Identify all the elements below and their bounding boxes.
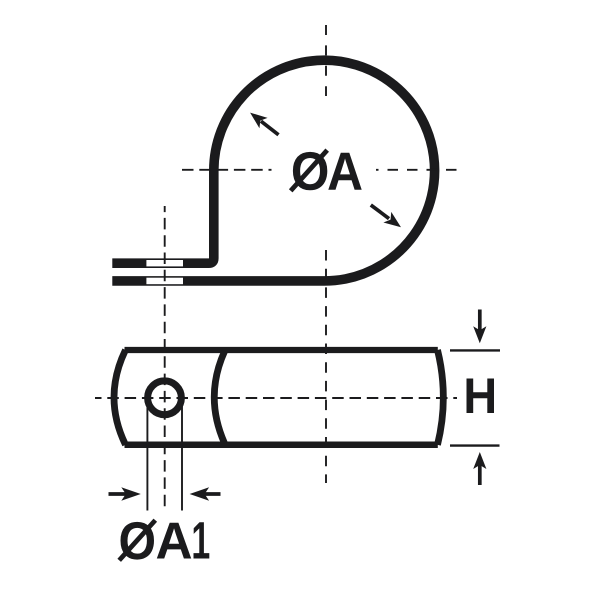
- wire: dashed vertical centerline of loop, upper part: [325, 25, 327, 96]
- node: extension line right of hole diameter: [181, 402, 183, 511]
- wire: H dimension line bottom: [450, 444, 500, 446]
- node: label OA1 (hole diameter): [121, 522, 210, 560]
- wire: front view right end arc: [438, 350, 444, 445]
- wire: front view top edge: [125, 347, 438, 353]
- wire: front view left end arc: [114, 350, 126, 445]
- wire: dashed vertical centerline of mounting hole: [164, 206, 166, 508]
- node: label OA (loop diameter): [293, 152, 362, 190]
- wire: dashed vertical centerline of loop, lower part: [325, 250, 327, 483]
- node: slash of the O in OA: [291, 150, 328, 191]
- node: label H (strip height): [467, 379, 495, 414]
- node: slash of the O in OA1: [119, 520, 155, 560]
- node: H arrow pointing up: [473, 452, 486, 485]
- node: H arrow pointing down: [473, 310, 486, 344]
- node: OA1 arrow pointing left: [190, 487, 221, 500]
- wire: dashed horizontal centerline of loop, right part: [376, 169, 460, 171]
- node: mounting hole ring: [148, 381, 182, 415]
- wire: front view bottom edge: [125, 442, 438, 449]
- node: extension line left of hole diameter: [146, 402, 148, 511]
- wire: dashed horizontal centerline of front view: [95, 397, 457, 399]
- node: diameter arrow lower-right: [371, 205, 405, 233]
- node: diameter arrow upper-left: [246, 107, 278, 134]
- wire: P-clip strip outline (top view: tab, bend, loop): [112, 60, 434, 281]
- node: hole gap in lower tab strip: [146, 278, 183, 285]
- wire: front view inner bend arc: [214, 352, 224, 444]
- wire: dashed horizontal centerline of loop, left part: [182, 169, 272, 171]
- node: hole gap in upper tab strip: [146, 260, 183, 266]
- node: OA1 arrow pointing right: [109, 487, 141, 500]
- wire: H dimension line top: [450, 349, 500, 351]
